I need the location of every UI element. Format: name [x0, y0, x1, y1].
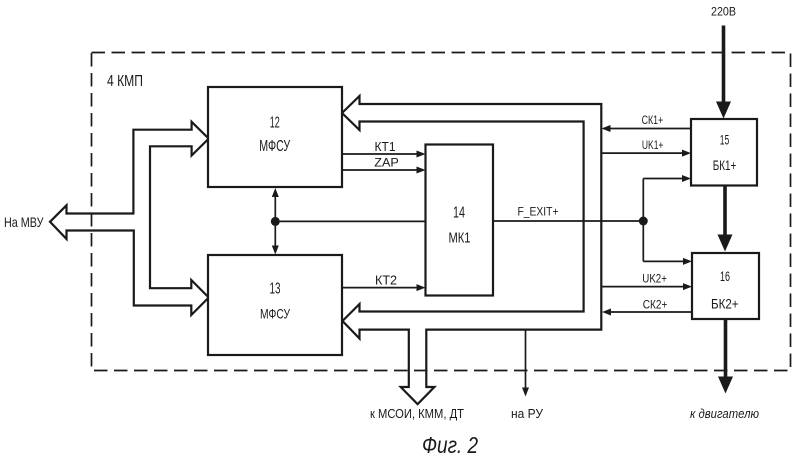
power thick link block 15 to block 16: [718, 186, 733, 252]
wire branch into block 15: [643, 175, 691, 182]
svg-text:МФСУ: МФСУ: [259, 138, 291, 155]
svg-text:F_EXIT+: F_EXIT+: [518, 204, 559, 218]
svg-text:Фиг. 2: Фиг. 2: [422, 432, 478, 458]
svg-text:КТ2: КТ2: [375, 273, 397, 288]
svg-text:ZAP: ZAP: [374, 156, 399, 170]
node (junction dot) on F_EXIT+ wire: [639, 217, 648, 226]
svg-text:МФСУ: МФСУ: [260, 306, 290, 322]
wire ZAP (block 12 to block 14): [342, 156, 426, 174]
svg-text:14: 14: [453, 205, 465, 222]
label 4 КМП: [107, 73, 143, 90]
power 220В label: [711, 6, 736, 19]
svg-text:12: 12: [270, 115, 280, 132]
block 14 МК1: [426, 145, 494, 296]
svg-text:на РУ: на РУ: [511, 407, 543, 421]
svg-text:220В: 220В: [711, 6, 736, 19]
label на РУ: [511, 407, 543, 421]
svg-text:15: 15: [720, 132, 730, 147]
left bus to На МВУ (hollow arrows into blocks 12 and 13): [50, 122, 209, 315]
wire branch into block 16: [643, 258, 692, 265]
svg-text:БК2+: БК2+: [711, 296, 739, 311]
wire from junction to block 14: [275, 220, 425, 222]
power 220В thick feed into block 15: [716, 26, 731, 119]
node (junction dot) on interprocessor wire: [271, 217, 280, 226]
svg-text:МК1: МК1: [449, 229, 471, 246]
wire UK1+ (bus to block 15): [601, 138, 691, 157]
wire КТ1 (block 12 to block 14): [342, 139, 426, 158]
wire на РУ (tap from bus bottom line going down): [522, 330, 529, 397]
wire UK2+ (bus to block 16): [601, 272, 692, 291]
svg-text:13: 13: [270, 281, 281, 298]
right feedback bus (hollow arrows into blocks 12, 13 and down to МСОИ): [342, 96, 601, 404]
caption Фиг. 2: [422, 432, 478, 458]
svg-text:На МВУ: На МВУ: [4, 214, 44, 230]
dashed boundary box 4 КМП: [92, 53, 791, 371]
svg-text:UK1+: UK1+: [642, 138, 664, 152]
wire СК1+ (block 15 to bus): [602, 113, 692, 132]
svg-text:UK2+: UK2+: [642, 272, 667, 286]
wire СК2+ (block 16 to bus): [602, 297, 692, 315]
label На МВУ: [4, 214, 44, 230]
svg-text:БК1+: БК1+: [713, 158, 737, 173]
wire F_EXIT+ vertical fan-out branch: [642, 179, 644, 262]
svg-text:4 КМП: 4 КМП: [107, 73, 143, 90]
wire КТ2 (block 13 to block 14): [342, 273, 426, 292]
block 16 БК2+: [692, 253, 759, 319]
svg-text:к двигателю: к двигателю: [690, 406, 759, 421]
wire F_EXIT+ (block 14 to right fan-out): [493, 204, 643, 221]
power thick output block 16 к двигателю: [718, 319, 733, 393]
svg-text:КТ1: КТ1: [375, 139, 396, 154]
block 15 БК1+: [691, 119, 757, 186]
label к двигателю: [690, 406, 759, 421]
svg-text:16: 16: [720, 269, 730, 284]
block 12 МФСУ: [208, 87, 342, 187]
block 13 МФСУ: [208, 255, 342, 355]
bidirectional wire between block 12 and block 13: [272, 188, 279, 255]
svg-text:СК2+: СК2+: [643, 297, 668, 311]
label к МСОИ, КММ, ДТ: [370, 407, 464, 421]
svg-text:к МСОИ, КММ, ДТ: к МСОИ, КММ, ДТ: [370, 407, 464, 421]
svg-text:СК1+: СК1+: [642, 113, 664, 127]
